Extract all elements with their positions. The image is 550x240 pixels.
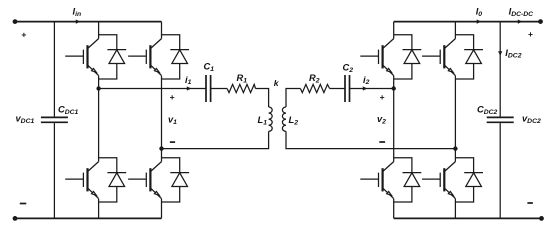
wire: leg A vertical xyxy=(98,22,100,219)
capacitor CDC1 plates xyxy=(41,117,68,122)
resistor R1 xyxy=(227,84,255,92)
svg-text:R2: R2 xyxy=(309,73,320,84)
svg-text:i1: i1 xyxy=(185,75,192,86)
transistor Q5 (IGBT + diode, leg C top) xyxy=(360,35,421,79)
wire: L2 top corner to R2 xyxy=(286,89,300,108)
label - (v1) xyxy=(170,141,175,143)
svg-text:vDC2: vDC2 xyxy=(522,114,541,125)
label - (vDC1) xyxy=(20,203,27,205)
current arrow I0 xyxy=(477,20,482,24)
svg-text:C2: C2 xyxy=(343,63,354,74)
wire: bottom rail right bridge xyxy=(394,217,542,219)
current arrow iDC2 (down) xyxy=(498,51,502,56)
capacitor C2 plates xyxy=(345,75,350,102)
current arrow IDC-DC xyxy=(518,20,523,24)
svg-text:i2: i2 xyxy=(363,75,370,86)
svg-text:L2: L2 xyxy=(289,115,299,126)
svg-text:IDC-DC: IDC-DC xyxy=(509,7,534,19)
capacitor CDC2 branch wire top xyxy=(499,22,501,117)
wire: L2 bottom to leg D xyxy=(286,131,455,148)
svg-text:CDC1: CDC1 xyxy=(58,105,79,116)
wire: leg D vertical xyxy=(454,22,456,219)
wire: leg B vertical xyxy=(161,22,163,219)
node: bridge1 leg B lower junction xyxy=(159,146,163,150)
resistor R2 xyxy=(300,84,329,92)
capacitor C1 plates xyxy=(206,75,211,102)
node: bridge2 leg C midpoint junction xyxy=(392,86,396,90)
capacitor CDC1 branch wire bottom xyxy=(53,123,55,218)
wire: leg C vertical xyxy=(393,22,395,219)
inductor L1 xyxy=(269,107,273,131)
current arrow i2 xyxy=(363,86,368,90)
label - (vDC2) xyxy=(527,202,533,204)
capacitor CDC1 branch wire top xyxy=(53,22,55,117)
transistor Q2 (IGBT + diode, leg A bottom) xyxy=(65,158,126,202)
transistor Q8 (IGBT + diode, leg D bottom) xyxy=(422,158,483,202)
svg-text:IDC2: IDC2 xyxy=(505,48,521,60)
transistor Q1 (IGBT + diode, leg A top) xyxy=(65,35,126,79)
node: DC2 positive terminal xyxy=(538,19,543,24)
transistor Q7 (IGBT + diode, leg D top) xyxy=(422,35,483,79)
current arrow i1 xyxy=(187,86,192,90)
svg-text:v2: v2 xyxy=(377,114,386,125)
svg-text:+: + xyxy=(528,29,533,39)
wire: C2 to leg C xyxy=(350,88,394,90)
wire: R1 to L1 corner xyxy=(256,89,269,108)
svg-text:CDC2: CDC2 xyxy=(477,105,498,116)
svg-text:I0: I0 xyxy=(476,7,483,19)
wire: C1 to R1 xyxy=(211,88,228,90)
svg-text:k: k xyxy=(274,78,280,88)
svg-text:Iin: Iin xyxy=(73,7,82,19)
node: DC1 positive terminal xyxy=(13,19,18,24)
inductor L2 xyxy=(282,107,286,131)
current arrow Iin xyxy=(76,20,81,24)
svg-text:+: + xyxy=(380,92,385,102)
capacitor CDC2 plates xyxy=(487,117,514,122)
wire: top rail right bridge xyxy=(394,21,541,23)
transistor Q3 (IGBT + diode, leg B top) xyxy=(128,35,189,79)
node: DC2 negative terminal xyxy=(539,216,544,221)
svg-text:vDC1: vDC1 xyxy=(16,114,35,125)
wire: R2 to C2 xyxy=(330,88,345,90)
wire: top rail left bridge xyxy=(15,21,162,23)
transistor Q4 (IGBT + diode, leg B bottom) xyxy=(128,158,189,202)
svg-text:C1: C1 xyxy=(204,62,215,73)
node: bridge2 leg D lower junction xyxy=(453,146,457,150)
wire: bottom rail left bridge xyxy=(15,217,162,219)
svg-text:v1: v1 xyxy=(168,115,177,126)
capacitor CDC2 branch wire bottom xyxy=(499,123,501,218)
node: bridge1 leg A midpoint junction xyxy=(96,86,100,90)
node: DC1 negative terminal xyxy=(13,216,18,221)
svg-text:R1: R1 xyxy=(237,73,248,84)
transistor Q6 (IGBT + diode, leg C bottom) xyxy=(360,158,421,202)
label - (v2) xyxy=(379,141,385,143)
svg-text:+: + xyxy=(170,92,175,102)
wire: L1 bottom to leg B xyxy=(162,131,269,148)
svg-text:L1: L1 xyxy=(258,115,268,126)
wire: v1 output upper (leg A to C1) xyxy=(99,88,206,90)
svg-text:+: + xyxy=(21,29,26,39)
